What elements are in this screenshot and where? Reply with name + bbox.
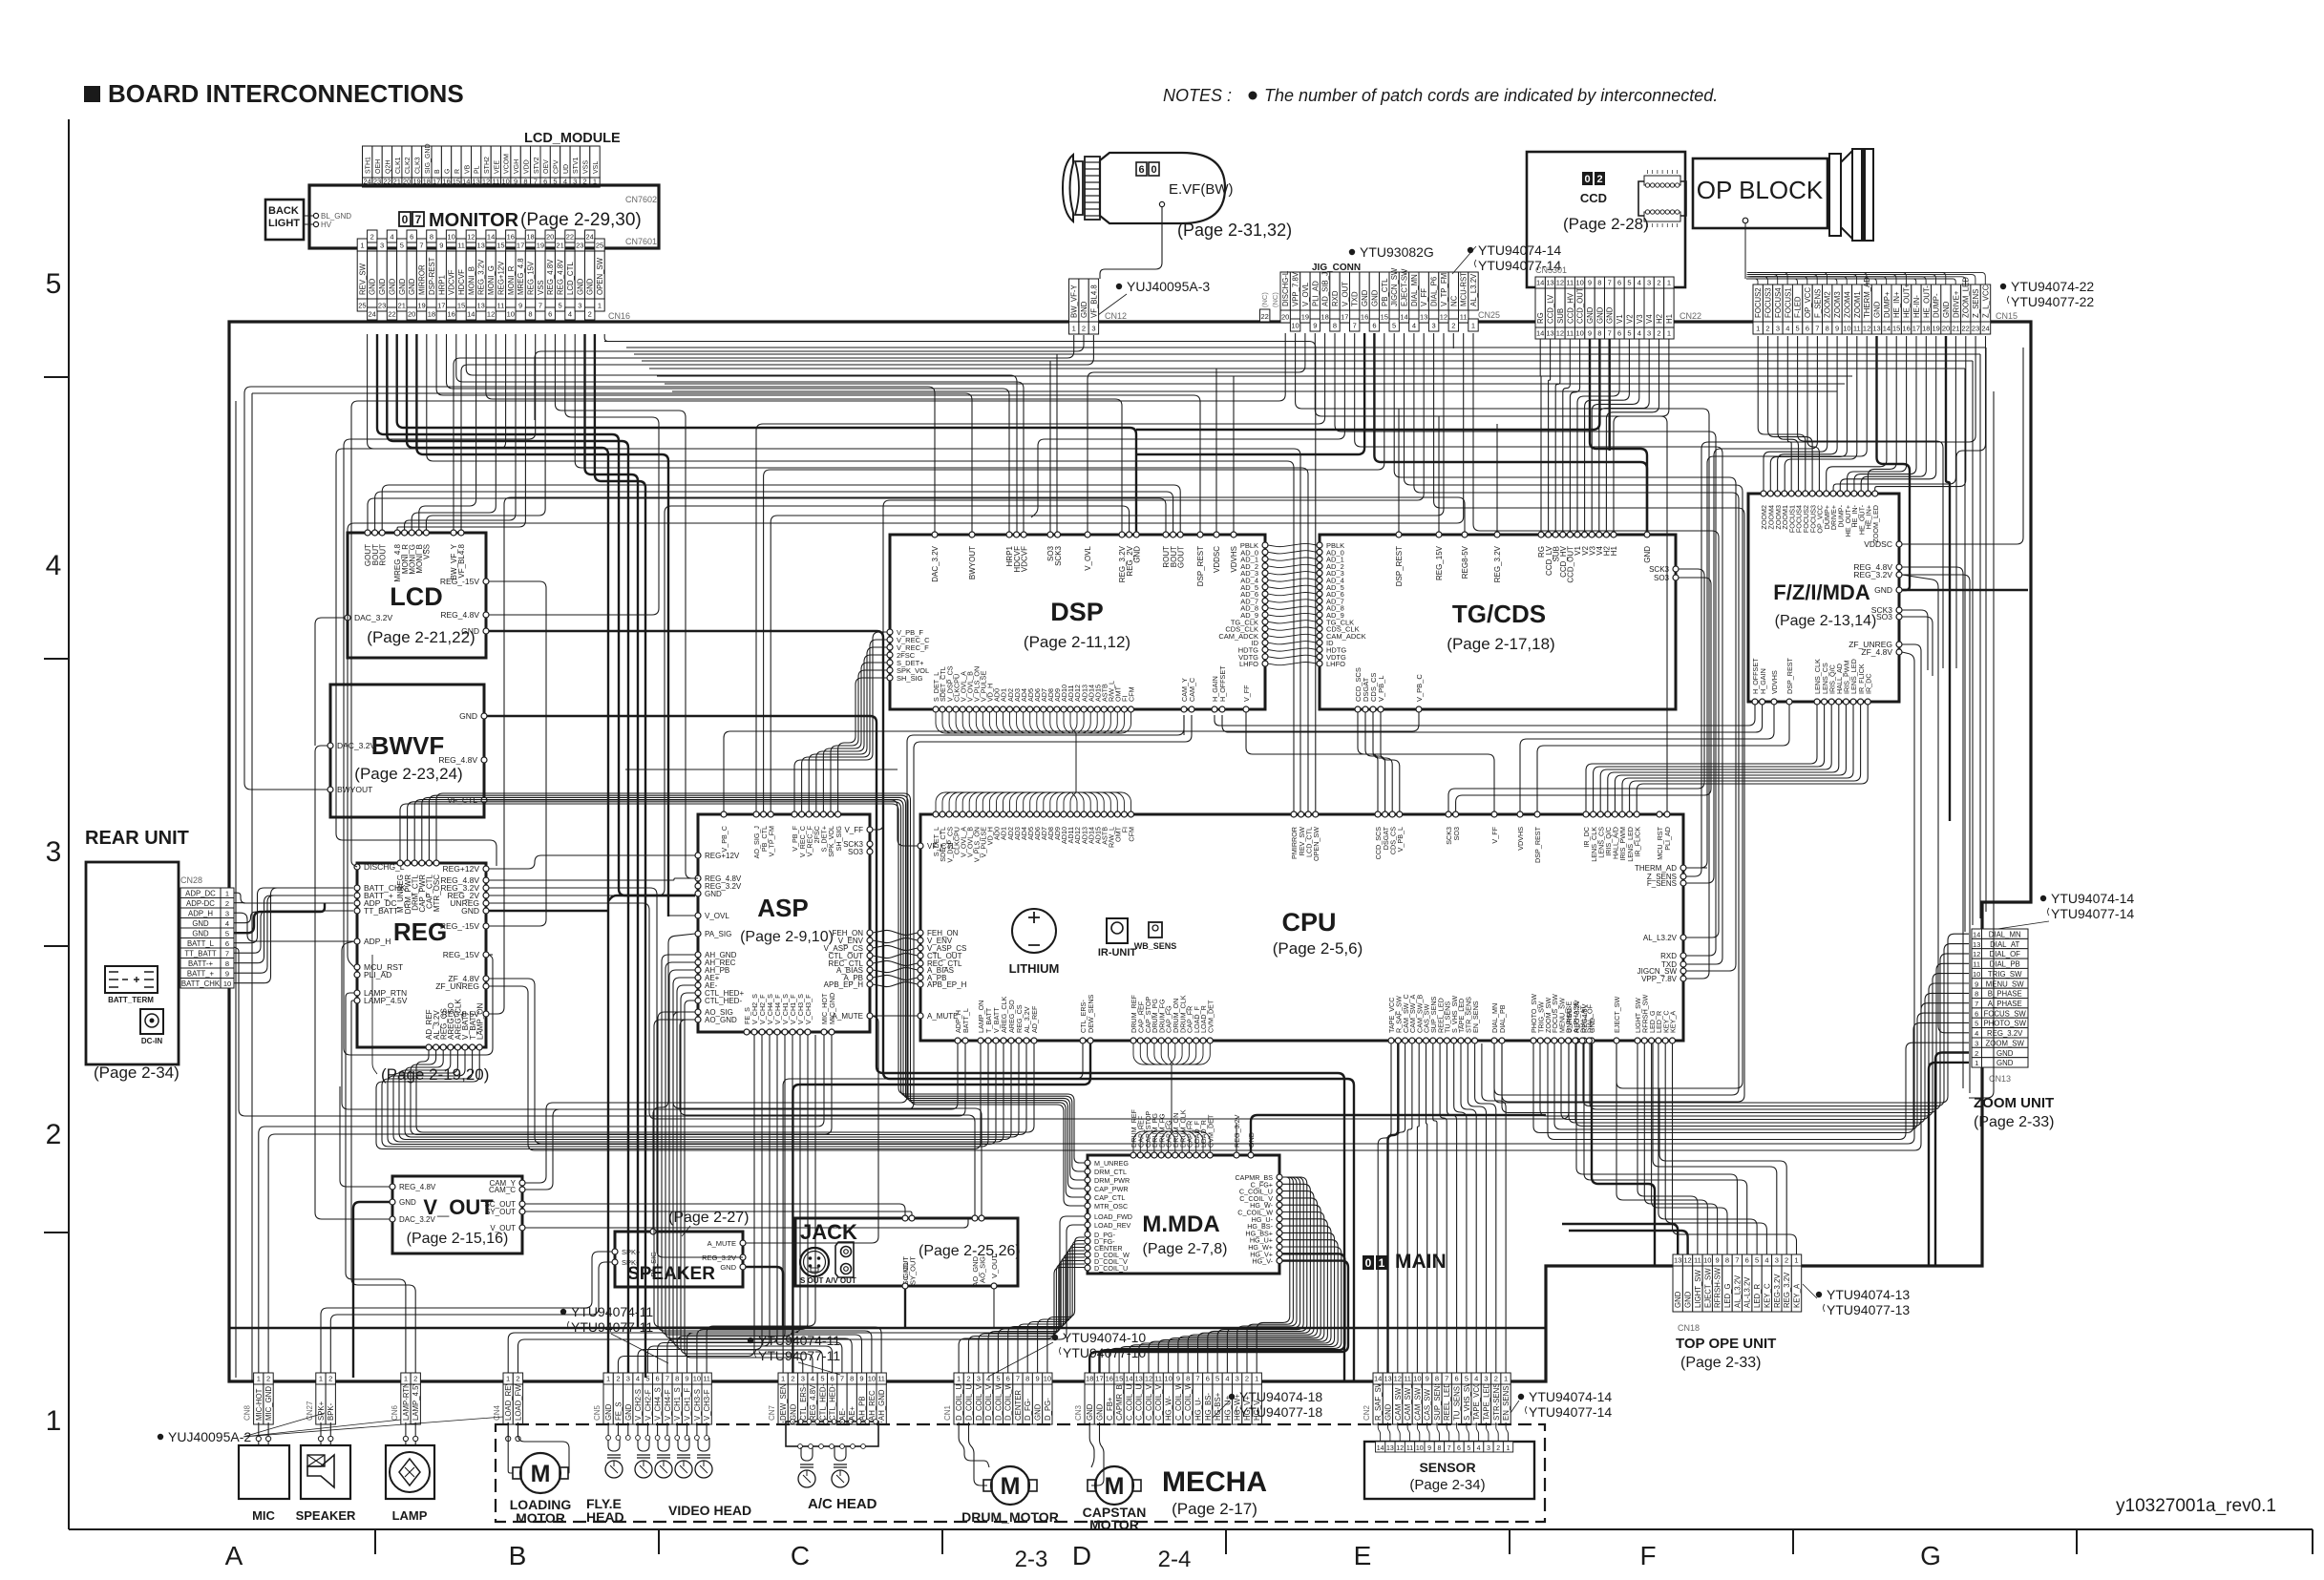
svg-text:V_FF: V_FF	[1242, 685, 1251, 702]
svg-text:GND: GND	[1874, 585, 1892, 595]
svg-text:HG_BS-: HG_BS-	[1204, 1393, 1213, 1421]
svg-text:BATT_L: BATT_L	[961, 1008, 970, 1033]
op block pin	[1743, 218, 1748, 223]
wire	[871, 1422, 873, 1422]
svg-text:ADP-DC: ADP-DC	[186, 899, 215, 908]
svg-text:13: 13	[1674, 1256, 1681, 1265]
speaker device box	[301, 1445, 350, 1499]
svg-text:DRIVE+: DRIVE+	[1952, 290, 1960, 318]
svg-text:CTL_HED+: CTL_HED+	[829, 1381, 837, 1421]
bottom ruler tick 3	[1225, 1529, 1227, 1554]
wire	[904, 1289, 906, 1328]
wire	[1592, 1043, 1655, 1266]
CPU right pins	[1680, 865, 1686, 871]
svg-text:1: 1	[46, 1405, 62, 1437]
wire	[320, 1441, 322, 1445]
connector CN3	[1085, 1384, 1094, 1424]
wire	[1398, 1043, 1405, 1373]
svg-text:13: 13	[1546, 279, 1553, 287]
ir unit	[1107, 918, 1128, 943]
wire	[412, 334, 496, 530]
svg-text:YTU94077-13: YTU94077-13	[1827, 1302, 1910, 1317]
wire	[604, 341, 1127, 343]
svg-text:HRP1: HRP1	[437, 275, 446, 295]
wire	[880, 1422, 882, 1422]
connector CN13	[1972, 929, 1982, 938]
wire	[618, 1035, 754, 1373]
DSP right pins	[1262, 542, 1268, 548]
svg-text:V_OVL: V_OVL	[1084, 545, 1092, 570]
svg-text:MCU-RST: MCU-RST	[1460, 272, 1468, 306]
svg-text:GND: GND	[1674, 1291, 1682, 1308]
svg-text:(Page 2-19,20): (Page 2-19,20)	[381, 1065, 489, 1084]
svg-text:3: 3	[1776, 325, 1780, 333]
svg-text:D_COIL_U: D_COIL_U	[964, 1383, 973, 1421]
wire	[518, 1422, 519, 1436]
svg-text:CPU: CPU	[1281, 908, 1336, 937]
svg-text:ZOOM1: ZOOM1	[1853, 291, 1862, 318]
svg-text:1: 1	[1507, 1445, 1511, 1452]
svg-text:9: 9	[518, 302, 522, 310]
svg-text:H1: H1	[1610, 545, 1618, 556]
svg-text:7: 7	[1353, 322, 1357, 330]
svg-text:18: 18	[1922, 325, 1930, 333]
wire	[447, 334, 1010, 532]
svg-text:0: 0	[1584, 174, 1590, 185]
DSP left pins	[887, 629, 893, 635]
svg-text:22: 22	[1261, 312, 1269, 321]
svg-text:11: 11	[1694, 1256, 1701, 1265]
svg-text:16: 16	[507, 233, 515, 242]
svg-text:DEW_SENS: DEW_SENS	[1087, 994, 1095, 1033]
svg-text:G: G	[445, 169, 452, 174]
wire	[1388, 1043, 1399, 1373]
svg-text:GND: GND	[461, 626, 479, 636]
svg-text:GND: GND	[378, 278, 387, 295]
wire	[1946, 336, 1950, 821]
svg-text:KEY_A: KEY_A	[1793, 1283, 1802, 1308]
svg-text:5: 5	[400, 242, 404, 250]
svg-text:BL_GND: BL_GND	[321, 212, 351, 221]
svg-text:HDCVF: HDCVF	[457, 269, 466, 295]
svg-text:LED_G: LED_G	[1723, 1283, 1732, 1308]
wire	[416, 334, 668, 916]
wire	[1902, 610, 1928, 670]
svg-text:15: 15	[457, 302, 465, 310]
svg-text:10: 10	[1291, 322, 1299, 330]
svg-text:GND: GND	[901, 1262, 910, 1278]
svg-text:23: 23	[576, 242, 583, 250]
svg-text:3: 3	[1975, 1040, 1978, 1048]
svg-text:9: 9	[439, 242, 443, 250]
svg-text:HG-BS+: HG-BS+	[1214, 1392, 1222, 1421]
wire	[454, 335, 1074, 530]
svg-text:(Page 2-15,16): (Page 2-15,16)	[407, 1231, 509, 1247]
svg-text:(Page 2-31,32): (Page 2-31,32)	[1177, 221, 1292, 240]
svg-text:YTU94074-14: YTU94074-14	[2051, 891, 2134, 906]
wire	[993, 1289, 995, 1328]
board CPU	[920, 814, 1683, 1041]
svg-text:R: R	[454, 169, 461, 174]
svg-text:REG_3.2V: REG_3.2V	[1783, 1272, 1791, 1308]
svg-text:AD_SIB_J: AD_SIB_J	[1321, 272, 1330, 306]
svg-text:MIC: MIC	[252, 1508, 275, 1523]
wire	[658, 1012, 872, 1373]
wire	[756, 333, 1325, 811]
wire	[642, 360, 1973, 362]
CPU left pins	[918, 843, 923, 849]
svg-text:2: 2	[1975, 1049, 1978, 1058]
wire	[873, 945, 918, 950]
svg-text:14: 14	[1400, 313, 1407, 322]
wire	[627, 1422, 629, 1436]
svg-text:5: 5	[1975, 1020, 1978, 1028]
wire	[1398, 409, 1400, 532]
wire	[1778, 336, 1799, 491]
board JACK	[795, 1218, 1018, 1286]
wire	[489, 652, 1914, 1144]
svg-text:2: 2	[46, 1119, 62, 1150]
bottom comb device stubs	[606, 1436, 611, 1441]
wire	[267, 1441, 269, 1445]
svg-text:3: 3	[225, 910, 229, 918]
wire	[393, 1043, 1004, 1142]
svg-text:2: 2	[1657, 279, 1660, 287]
wire	[489, 855, 695, 869]
svg-text:AL_L3.2V: AL_L3.2V	[1469, 273, 1478, 306]
DSP top pins	[932, 532, 938, 537]
svg-text:GND: GND	[1606, 306, 1615, 324]
svg-text:YTU94074-11: YTU94074-11	[571, 1304, 653, 1319]
svg-text:ROUT: ROUT	[378, 544, 387, 566]
svg-text:20: 20	[408, 310, 415, 319]
svg-text:FOCUS4: FOCUS4	[1774, 287, 1783, 318]
title bullet	[84, 86, 100, 102]
svg-text:GND: GND	[1684, 1291, 1693, 1308]
wire	[258, 1441, 260, 1445]
svg-text:PB_CTL: PB_CTL	[1381, 278, 1389, 306]
svg-text:DRM_CTL: DRM_CTL	[1094, 1168, 1127, 1176]
ASP left pins	[695, 853, 701, 858]
sensor comb wires	[1378, 1422, 1380, 1442]
svg-text:9: 9	[1313, 322, 1317, 330]
wire	[654, 1020, 881, 1373]
svg-text:HG_U-: HG_U-	[1194, 1397, 1203, 1421]
svg-text:7: 7	[539, 302, 542, 310]
svg-text:CN8: CN8	[243, 1404, 252, 1421]
wire	[1149, 1219, 1327, 1373]
wire	[1215, 705, 1755, 726]
svg-text:8: 8	[1333, 322, 1337, 330]
svg-text:WB_SENS: WB_SENS	[1134, 941, 1177, 951]
svg-text:VPP_7.8V: VPP_7.8V	[1641, 975, 1678, 983]
wire	[662, 955, 862, 1373]
svg-text:13: 13	[1386, 1445, 1394, 1452]
wire	[1599, 339, 1649, 532]
svg-text:VDD: VDD	[523, 159, 530, 174]
wire	[1985, 348, 1987, 912]
wire	[1979, 354, 1981, 918]
wire	[959, 1268, 1085, 1374]
svg-text:STH2: STH2	[484, 157, 491, 174]
lithium battery	[1012, 909, 1056, 953]
bottom ruler tick 5	[1792, 1529, 1794, 1554]
wire	[1374, 333, 1647, 532]
wire	[1569, 1231, 1688, 1254]
svg-text:NOTES :: NOTES :	[1163, 86, 1232, 105]
wire	[988, 1257, 1085, 1373]
board BWVF	[330, 685, 484, 817]
svg-text:16: 16	[1106, 1375, 1113, 1383]
svg-text:CN28: CN28	[180, 875, 202, 885]
wire	[625, 769, 898, 770]
svg-text:16: 16	[1361, 313, 1368, 322]
svg-text:JIGCN_SW: JIGCN_SW	[1390, 267, 1399, 306]
svg-text:10: 10	[1164, 1375, 1172, 1383]
svg-text:5: 5	[1627, 279, 1631, 287]
wire	[637, 1422, 639, 1436]
wire	[1686, 867, 1707, 869]
svg-text:4: 4	[568, 310, 572, 319]
wire	[873, 1015, 918, 1017]
svg-text:BATT_TERM: BATT_TERM	[108, 996, 154, 1004]
svg-text:RXD: RXD	[1331, 290, 1340, 306]
svg-text:(Page 2-7,8): (Page 2-7,8)	[1143, 1241, 1228, 1257]
svg-text:REG_15V: REG_15V	[527, 261, 536, 295]
wire	[315, 746, 390, 1219]
svg-text:OEV: OEV	[543, 159, 550, 174]
svg-text:2: 2	[1496, 1445, 1500, 1452]
wire	[1247, 1177, 1293, 1373]
wire	[268, 1035, 832, 1373]
svg-text:PHOTO_SW: PHOTO_SW	[1983, 1020, 2026, 1028]
svg-text:10: 10	[1044, 1375, 1051, 1383]
bullet YUJ40095A-2	[158, 1434, 163, 1440]
wire	[405, 1441, 407, 1445]
svg-text:CENTER: CENTER	[1014, 1390, 1023, 1421]
wire	[1576, 1043, 1737, 1254]
svg-text:4: 4	[225, 919, 229, 928]
sensor box	[1364, 1442, 1534, 1499]
wire	[653, 934, 695, 1229]
wire	[1614, 339, 1669, 532]
svg-text:2: 2	[1785, 1256, 1788, 1265]
wire	[1665, 1043, 1766, 1254]
wire	[1049, 361, 1051, 532]
svg-text:7: 7	[1608, 279, 1612, 287]
svg-text:GND: GND	[586, 278, 595, 295]
svg-text:8: 8	[225, 959, 229, 968]
svg-text:4: 4	[46, 550, 62, 581]
svg-text:DIAL_PB: DIAL_PB	[1498, 1004, 1507, 1033]
svg-text:KEY_C: KEY_C	[1763, 1283, 1771, 1308]
svg-text:10: 10	[1575, 329, 1583, 338]
wire	[1188, 1191, 1314, 1373]
svg-text:1: 1	[1471, 322, 1475, 330]
svg-text:ZOOM2: ZOOM2	[1824, 291, 1832, 318]
svg-text:V_PB_L: V_PB_L	[1396, 827, 1405, 852]
wire	[792, 1043, 1090, 1373]
svg-text:LCD: LCD	[390, 582, 443, 611]
wire	[1561, 983, 1969, 1120]
svg-text:1: 1	[1667, 329, 1671, 338]
connector CN4	[503, 1384, 513, 1424]
svg-text:VDVHS: VDVHS	[1230, 546, 1238, 573]
wire	[416, 1043, 1034, 1132]
wire	[873, 333, 1424, 830]
svg-text:ASP: ASP	[757, 894, 808, 922]
wire	[998, 1254, 1085, 1374]
SPEAKER top pin	[650, 1229, 656, 1234]
svg-text:CN12: CN12	[1105, 311, 1127, 321]
wire	[234, 895, 353, 963]
BWVF right pins	[481, 713, 487, 719]
bullet YTU93082G	[1349, 249, 1355, 255]
svg-text:MIC_GND: MIC_GND	[828, 993, 836, 1024]
svg-text:CN5: CN5	[593, 1404, 602, 1421]
wire	[771, 333, 1444, 811]
svg-text:DRM_PWR: DRM_PWR	[1094, 1176, 1130, 1185]
wire	[1653, 1043, 1777, 1254]
svg-text:REG_3.2V: REG_3.2V	[1233, 1114, 1241, 1148]
svg-text:VEE: VEE	[494, 160, 500, 174]
CPU top pins	[933, 811, 939, 817]
wire	[234, 888, 353, 943]
svg-text:TAPE_LED: TAPE_LED	[1483, 1382, 1491, 1421]
svg-text:STR-SENS: STR-SENS	[1492, 1383, 1501, 1421]
wire	[1109, 1247, 1342, 1373]
svg-text:19: 19	[537, 242, 544, 250]
svg-text:A: A	[225, 1541, 243, 1570]
svg-text:3: 3	[977, 1375, 981, 1383]
svg-text:1: 1	[1255, 1375, 1258, 1383]
wire	[1129, 1232, 1334, 1373]
wire	[508, 1422, 513, 1473]
svg-text:13: 13	[477, 302, 485, 310]
FZ right pins	[1896, 541, 1902, 547]
svg-text:YTU94077-14: YTU94077-14	[2051, 906, 2134, 921]
svg-text:11: 11	[1973, 960, 1980, 969]
svg-text:2: 2	[616, 1375, 620, 1383]
wire	[387, 334, 628, 1373]
board DSP	[890, 535, 1265, 709]
svg-text:M.MDA: M.MDA	[1142, 1211, 1219, 1237]
svg-text:AO_SIG: AO_SIG	[979, 1256, 987, 1283]
svg-text:STV1: STV1	[573, 157, 580, 174]
wire	[841, 1422, 843, 1422]
wire	[666, 1422, 668, 1436]
svg-text:10: 10	[507, 310, 515, 319]
svg-text:5: 5	[1215, 1375, 1219, 1383]
svg-text:OP BLOCK: OP BLOCK	[1697, 176, 1824, 204]
svg-text:CN7602: CN7602	[625, 195, 657, 204]
svg-text:TRIG_SW: TRIG_SW	[1988, 970, 2022, 979]
svg-text:3: 3	[1487, 1445, 1490, 1452]
wire	[1417, 1043, 1419, 1373]
wire	[575, 334, 1308, 811]
wire	[489, 878, 695, 880]
wire	[1237, 1177, 1297, 1373]
svg-text:REG-3.2V: REG-3.2V	[1773, 1274, 1782, 1308]
svg-text:AL_L3.2V: AL_L3.2V	[1643, 934, 1678, 942]
svg-text:V3: V3	[1636, 314, 1644, 324]
svg-text:B: B	[434, 169, 441, 174]
svg-text:DUMP-: DUMP-	[1933, 293, 1941, 318]
svg-text:F-LED: F-LED	[1794, 296, 1803, 318]
wire	[968, 1264, 1085, 1373]
svg-text:24: 24	[369, 310, 376, 319]
svg-text:DIAL_MN: DIAL_MN	[1410, 274, 1419, 306]
svg-text:17: 17	[437, 302, 445, 310]
svg-text:G: G	[1920, 1541, 1941, 1570]
jack svideo connector	[800, 1248, 829, 1276]
svg-text:V_CH4-F: V_CH4-F	[664, 1389, 672, 1421]
svg-text:MREG_4.8: MREG_4.8	[517, 258, 525, 295]
wire	[1770, 336, 1847, 491]
wire	[489, 903, 1569, 1119]
wire	[1257, 1177, 1290, 1373]
connector CN1	[954, 1384, 963, 1424]
svg-text:13: 13	[477, 242, 485, 250]
wire	[851, 1422, 853, 1422]
svg-text:A_PHASE: A_PHASE	[1988, 1000, 2022, 1008]
svg-text:GND: GND	[1132, 546, 1141, 563]
svg-text:CN7: CN7	[768, 1404, 776, 1421]
svg-text:GND: GND	[1942, 301, 1951, 318]
wire	[368, 498, 1166, 532]
svg-text:GND: GND	[1080, 301, 1088, 318]
svg-text:4: 4	[1474, 1375, 1478, 1383]
svg-text:NC: NC	[1449, 295, 1458, 306]
wire	[1222, 705, 1763, 732]
wire	[668, 915, 695, 916]
wire	[1468, 1043, 1486, 1373]
wire	[1658, 1043, 1757, 1254]
svg-text:2: 2	[1494, 1375, 1498, 1383]
svg-text:(NC): (NC)	[1260, 292, 1269, 307]
svg-text:C_COIL_V: C_COIL_V	[1154, 1383, 1163, 1421]
wire	[336, 334, 506, 866]
svg-text:6: 6	[1457, 1445, 1461, 1452]
svg-text:21: 21	[1952, 325, 1959, 333]
svg-text:V_OVL: V_OVL	[705, 912, 729, 920]
JACK bottom pins	[902, 1283, 908, 1289]
svg-text:VGH: VGH	[514, 159, 520, 174]
connector CN7602 comb	[363, 146, 372, 178]
wire	[489, 631, 1354, 1381]
svg-text:5: 5	[1465, 1375, 1468, 1383]
wire	[1902, 617, 1933, 676]
svg-text:CN25: CN25	[1478, 310, 1500, 320]
bullet YTU94074-22	[2000, 284, 2006, 289]
svg-text:EJECT_SW: EJECT_SW	[1613, 996, 1621, 1033]
svg-text:11: 11	[497, 302, 505, 310]
wire	[1452, 333, 1454, 348]
svg-text:EN_SENS: EN_SENS	[1502, 1386, 1511, 1421]
wire	[315, 618, 345, 746]
svg-text:6: 6	[1806, 325, 1809, 333]
svg-text:Z_L_VCC: Z_L_VCC	[1982, 284, 1991, 318]
svg-text:D_COIL_U: D_COIL_U	[1094, 1264, 1128, 1273]
svg-text:CN3: CN3	[1074, 1404, 1083, 1421]
svg-text:(Page 2-11,12): (Page 2-11,12)	[1024, 633, 1130, 651]
svg-text:14: 14	[1536, 329, 1544, 338]
board TG-CDS	[1320, 535, 1676, 709]
svg-text:DISCHG-L: DISCHG-L	[1281, 270, 1290, 306]
svg-text:V_CH3-F: V_CH3-F	[703, 1389, 711, 1421]
wire	[1414, 333, 1739, 1095]
wire	[724, 712, 1419, 811]
